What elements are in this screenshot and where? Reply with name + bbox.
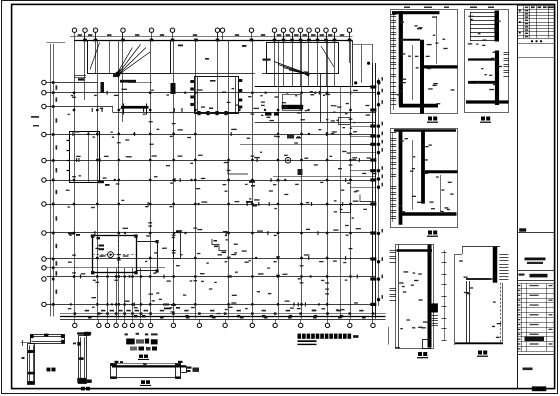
beam elevation detail: [110, 361, 199, 379]
wall section detail 2 outline: [465, 10, 509, 113]
shaft left of stairwell: [74, 76, 86, 81]
stairwell room top-left: [88, 41, 255, 95]
left axis bubbles column: [42, 80, 46, 306]
left dimension tick dots: [52, 81, 55, 306]
beam symbol upper left: [101, 82, 149, 115]
corner detail L2 label: [81, 387, 90, 391]
pit detail next to core: [174, 231, 182, 259]
title block frame line: [517, 4, 519, 388]
detail 4 walls: [397, 245, 438, 349]
plan bottom wall: [60, 314, 386, 320]
bottom dimension texts: [74, 310, 375, 319]
detail 5 annotations: [459, 260, 501, 338]
wall plan detail label: [138, 355, 149, 361]
detail 2 stair flight: [470, 11, 499, 42]
central partial walls: [240, 145, 376, 177]
corner detail L1 horizontal member: [21, 334, 65, 346]
revision table top: [517, 6, 554, 58]
corner detail L1 label: [47, 368, 56, 372]
vertical grid lines: [75, 40, 351, 318]
column marks at grid intersections: [73, 91, 352, 305]
right top dimension pair: [352, 44, 380, 84]
left margin texts: [31, 116, 39, 127]
corner detail L1 vertical member: [22, 344, 36, 385]
vertical grid lines lower wing: [108, 268, 141, 319]
step line mid plan: [228, 160, 248, 174]
tick marks on grid lines: [70, 91, 360, 306]
horizontal grid lines: [47, 93, 376, 305]
detail 1 annotations: [396, 7, 454, 105]
corner detail L2 member: [73, 332, 92, 384]
detail 3 walls: [394, 130, 458, 225]
detail 1 dimension ticks: [391, 14, 396, 110]
shaft room top-middle: [190, 77, 242, 116]
right dimension line with node dots: [377, 77, 383, 306]
detail 3 label: [427, 231, 438, 237]
wall section detail 1 outline: [391, 10, 458, 114]
room left wing: [67, 132, 100, 183]
horizontal partial grid lines: [47, 83, 166, 268]
detail 5 walls: [455, 247, 509, 344]
detail 2 label: [480, 117, 491, 123]
plan top wall: [74, 39, 353, 42]
detail 4 annotations: [399, 271, 427, 329]
title block stamp divider: [517, 228, 554, 232]
detail 3 dimension ticks: [391, 132, 396, 222]
detail 2 walls: [466, 51, 509, 106]
title block drawing number: [523, 368, 547, 392]
detail 4 dimension ticks: [389, 250, 447, 348]
plan mid transverse wall: [255, 86, 373, 88]
lift core walls: [91, 234, 159, 274]
title block project row: [517, 274, 554, 281]
central floor drain circle: [246, 134, 303, 207]
detail 4 label: [417, 352, 428, 358]
wall section detail 4 outline: [396, 245, 434, 349]
detail 2 annotations: [468, 7, 509, 91]
core sump circle: [108, 252, 114, 258]
annotation cluster lower middle: [163, 304, 180, 310]
detail 3 annotations: [399, 138, 453, 216]
title block institute name: [517, 258, 554, 271]
plan title text: [298, 334, 359, 346]
detail 1 walls: [392, 11, 458, 114]
core stair text marks: [99, 245, 105, 251]
detail 1 label: [427, 117, 438, 123]
left dimension lines: [47, 43, 66, 317]
title block signature table: [517, 283, 554, 354]
wall section detail 5 outline: [455, 247, 501, 346]
beam elevation label: [140, 380, 151, 386]
top dimension line: [70, 34, 353, 36]
stepped wall lower middle: [212, 239, 227, 253]
top axis bubbles row: [72, 28, 351, 40]
ramp arrows top-left: [113, 45, 150, 78]
room mid-right of transverse wall: [255, 74, 376, 123]
plan annotation texts: [66, 88, 377, 314]
wall plan detail walls: [125, 333, 158, 351]
plan right wall: [352, 40, 376, 318]
right wing wall stubs: [339, 87, 376, 317]
vertical grid lines upper stair zone: [85, 33, 350, 122]
annotation cluster left wing: [68, 45, 247, 240]
bottom axis bubbles row: [73, 319, 376, 327]
ramp arrows top-centre: [263, 59, 310, 77]
step line right plan: [341, 195, 377, 213]
stairwell room top-centre: [262, 43, 339, 74]
detail 5 label: [477, 351, 488, 357]
wall section detail 3 outline: [391, 129, 458, 228]
detail 1 inner lines: [413, 16, 437, 100]
detail 3 inner lines: [413, 140, 441, 212]
bottom wall column marks: [134, 315, 343, 318]
